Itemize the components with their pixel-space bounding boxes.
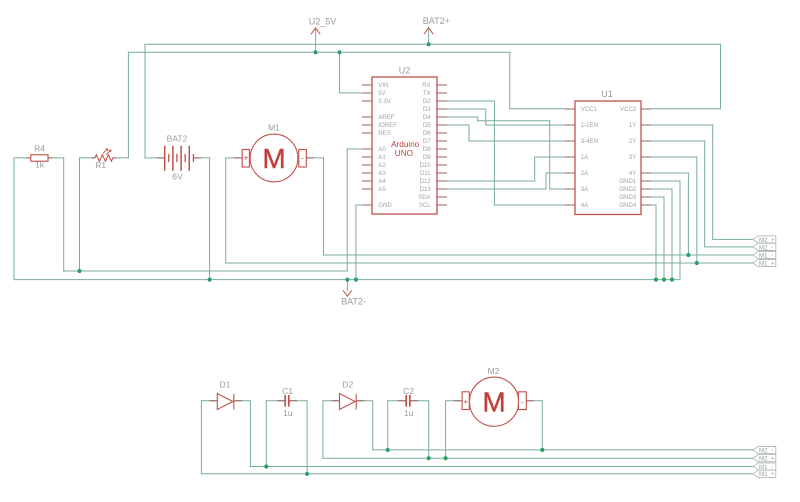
svg-text:1k: 1k bbox=[35, 160, 45, 170]
svg-text:U2_5V: U2_5V bbox=[309, 16, 337, 26]
svg-text:M: M bbox=[482, 387, 505, 418]
svg-text:1u: 1u bbox=[283, 408, 293, 418]
svg-text:M2_+: M2_+ bbox=[759, 456, 775, 463]
svg-text:RES: RES bbox=[378, 130, 391, 137]
svg-text:GND: GND bbox=[378, 202, 392, 209]
svg-text:IOREF: IOREF bbox=[378, 122, 397, 129]
svg-text:SDA: SDA bbox=[418, 194, 431, 201]
svg-text:1-2EN: 1-2EN bbox=[581, 122, 598, 129]
svg-text:VCC1: VCC1 bbox=[581, 106, 598, 113]
svg-text:+: + bbox=[244, 154, 249, 163]
svg-text:D13: D13 bbox=[420, 186, 432, 193]
svg-text:BAT2-: BAT2- bbox=[341, 297, 366, 307]
svg-text:GND2: GND2 bbox=[619, 186, 637, 193]
svg-text:M: M bbox=[262, 143, 285, 174]
svg-text:M1: M1 bbox=[268, 123, 280, 133]
svg-text:1Y: 1Y bbox=[629, 122, 636, 129]
svg-text:D10: D10 bbox=[420, 162, 432, 169]
svg-text:C2: C2 bbox=[403, 386, 414, 396]
svg-text:3A: 3A bbox=[581, 186, 589, 193]
svg-text:3-4EN: 3-4EN bbox=[581, 138, 598, 145]
svg-text:D2: D2 bbox=[342, 379, 353, 389]
svg-text:1A: 1A bbox=[581, 154, 589, 161]
svg-text:GND4: GND4 bbox=[619, 202, 637, 209]
svg-text:M1_+: M1_+ bbox=[759, 260, 775, 267]
svg-text:-: - bbox=[301, 154, 304, 163]
svg-text:UNO: UNO bbox=[395, 149, 413, 158]
svg-text:M1_-: M1_- bbox=[759, 252, 773, 259]
svg-text:+: + bbox=[463, 398, 468, 407]
svg-text:A5: A5 bbox=[378, 186, 386, 193]
svg-text:A0: A0 bbox=[378, 146, 386, 153]
svg-text:A4: A4 bbox=[378, 178, 386, 185]
svg-text:3Y: 3Y bbox=[629, 154, 636, 161]
svg-text:4A: 4A bbox=[581, 202, 589, 209]
svg-text:M2_-: M2_- bbox=[759, 448, 773, 455]
svg-text:D2: D2 bbox=[423, 98, 431, 105]
svg-text:5V: 5V bbox=[378, 90, 386, 97]
svg-text:6V: 6V bbox=[172, 172, 183, 182]
svg-text:D1: D1 bbox=[220, 379, 231, 389]
svg-text:-: - bbox=[521, 397, 524, 406]
svg-text:4Y: 4Y bbox=[629, 170, 636, 177]
svg-text:Arduino: Arduino bbox=[391, 140, 420, 149]
svg-text:2Y: 2Y bbox=[629, 138, 636, 145]
svg-text:D12: D12 bbox=[420, 178, 432, 185]
svg-text:3.3V: 3.3V bbox=[378, 98, 391, 105]
svg-text:C1: C1 bbox=[282, 386, 293, 396]
svg-text:D7: D7 bbox=[423, 138, 431, 145]
svg-text:D11: D11 bbox=[420, 170, 431, 177]
svg-text:BAT2+: BAT2+ bbox=[423, 16, 450, 26]
svg-text:M2_-: M2_- bbox=[759, 244, 773, 251]
svg-text:SCL: SCL bbox=[419, 202, 431, 209]
svg-text:A1: A1 bbox=[378, 154, 386, 161]
svg-text:U2: U2 bbox=[399, 66, 411, 76]
svg-text:BAT2: BAT2 bbox=[167, 134, 188, 144]
svg-text:1u: 1u bbox=[404, 408, 414, 418]
svg-text:A3: A3 bbox=[378, 170, 386, 177]
svg-text:M2_+: M2_+ bbox=[759, 237, 775, 244]
svg-text:GND3: GND3 bbox=[619, 194, 637, 201]
svg-text:R4: R4 bbox=[34, 144, 45, 154]
svg-text:U1: U1 bbox=[601, 89, 613, 99]
svg-text:M2: M2 bbox=[488, 366, 500, 376]
svg-text:VIN: VIN bbox=[378, 82, 388, 89]
svg-text:R1: R1 bbox=[95, 160, 106, 170]
svg-text:M1_+: M1_+ bbox=[759, 471, 775, 478]
svg-text:D6: D6 bbox=[423, 130, 431, 137]
svg-text:GND1: GND1 bbox=[619, 178, 637, 185]
svg-text:D8: D8 bbox=[423, 146, 431, 153]
svg-text:2A: 2A bbox=[581, 170, 589, 177]
svg-text:AREF: AREF bbox=[378, 114, 395, 121]
svg-text:D5: D5 bbox=[423, 122, 431, 129]
svg-text:D9: D9 bbox=[423, 154, 431, 161]
svg-text:A2: A2 bbox=[378, 162, 386, 169]
svg-text:VCC2: VCC2 bbox=[620, 106, 637, 113]
svg-text:D3: D3 bbox=[423, 106, 431, 113]
svg-text:TX: TX bbox=[423, 90, 431, 97]
svg-text:RX: RX bbox=[422, 82, 430, 89]
svg-text:D4: D4 bbox=[423, 114, 431, 121]
